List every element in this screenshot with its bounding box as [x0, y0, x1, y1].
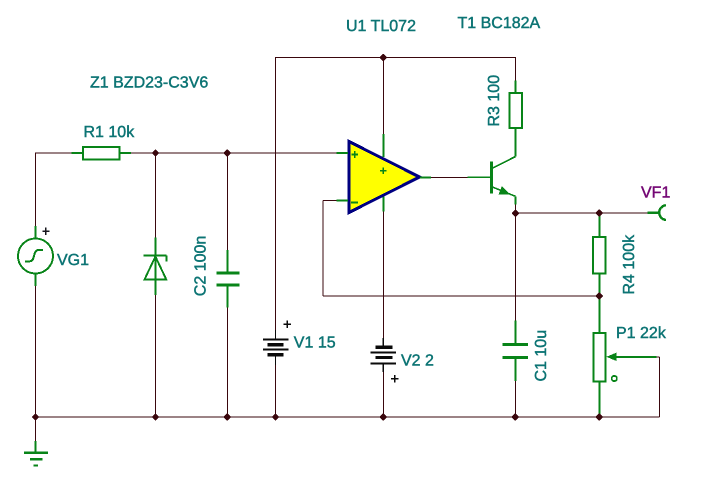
svg-text:U1 TL072: U1 TL072 — [346, 18, 416, 35]
op-amp plus input mark — [351, 154, 358, 156]
wire P1 wiper drop to bus — [659, 357, 661, 417]
transistor T1 — [468, 157, 516, 205]
generator VG1 — [18, 226, 53, 286]
svg-text:VG1: VG1 — [57, 252, 89, 269]
wire feedback riser — [322, 201, 324, 297]
svg-text:V1 15: V1 15 — [294, 335, 336, 352]
wire VG1 top riser — [35, 153, 37, 227]
V1 polarity plus — [284, 323, 292, 325]
svg-text:T1 BC182A: T1 BC182A — [458, 15, 541, 32]
wire emitter to node — [515, 204, 517, 213]
wire emitter node down to C1 — [515, 213, 517, 320]
wire op-amp output to T1 base — [431, 176, 468, 178]
op-amp V+ mark — [380, 170, 387, 172]
ground — [24, 441, 48, 466]
wire bottom bus — [36, 416, 660, 418]
wire feedback minus stub — [323, 200, 337, 202]
node bus Z1 junction — [152, 414, 158, 420]
svg-text:R3 100: R3 100 — [486, 75, 503, 127]
svg-text:R1 10k: R1 10k — [84, 124, 136, 141]
node bus C1 junction — [512, 414, 518, 420]
wire ground drop — [35, 417, 37, 442]
op-amp U1 input/output leads — [337, 153, 432, 201]
wire op-amp V- riser to V2 — [382, 212, 384, 346]
node V+ rail junction — [380, 54, 386, 60]
potentiometer P1 — [594, 296, 657, 417]
wire C1 to bottom bus — [515, 381, 517, 417]
wire top rail from V1 riser to R3 — [276, 57, 517, 59]
capacitor C2 — [216, 250, 239, 308]
svg-text:V2 2: V2 2 — [401, 353, 434, 370]
svg-text:P1 22k: P1 22k — [616, 325, 667, 342]
wire R1 to op-amp plus input — [131, 152, 337, 154]
zener diode Z1 — [143, 238, 166, 296]
VG1 polarity plus — [42, 230, 49, 232]
node bus V2 junction — [380, 414, 386, 420]
node R1/Z1 junction — [152, 150, 158, 156]
wire V1 negative to bottom bus — [275, 357, 277, 418]
op-amp minus input mark — [351, 201, 358, 203]
wire V2 to bottom bus — [382, 364, 384, 417]
svg-text:C2 100n: C2 100n — [193, 236, 210, 297]
battery V1 — [263, 330, 289, 365]
wire op-amp V+ riser — [382, 57, 384, 134]
resistor R3 — [510, 80, 523, 156]
wire feedback horizontal to R4 bottom node — [323, 295, 599, 297]
wire top rail drop to R3 — [515, 57, 517, 81]
node R4 top junction — [596, 210, 602, 216]
node bus V1 junction — [272, 414, 278, 420]
capacitor C1 — [502, 321, 528, 382]
battery V2 — [371, 338, 397, 372]
svg-text:Z1 BZD23-C3V6: Z1 BZD23-C3V6 — [90, 75, 208, 92]
wire input node left segment — [36, 152, 72, 154]
node bus C2 junction — [224, 414, 230, 420]
svg-text:C1 10u: C1 10u — [533, 330, 550, 382]
resistor R1 — [72, 147, 132, 160]
terminal VF1 — [648, 205, 666, 219]
V2 polarity plus — [391, 378, 399, 380]
resistor R4 — [593, 214, 606, 296]
node emitter junction — [512, 210, 518, 216]
wire P1 wiper corner — [657, 356, 660, 358]
wire emitter node to VF1 — [516, 212, 648, 214]
wire zener bottom riser — [155, 295, 157, 417]
wire zener top riser — [155, 153, 157, 238]
wire VG1 bottom riser — [35, 286, 37, 417]
wire C2 top riser — [226, 153, 228, 250]
node bus VG1 junction — [32, 414, 38, 420]
svg-text:R4 100k: R4 100k — [621, 234, 638, 295]
node R4/P1 junction — [596, 293, 602, 299]
op-amp U1 — [349, 142, 420, 213]
node R1/C2 junction — [224, 150, 230, 156]
op-amp U1 power pins — [382, 134, 384, 212]
node bus P1 junction — [596, 414, 602, 420]
wire C2 bottom riser — [226, 308, 228, 418]
svg-text:VF1: VF1 — [641, 184, 670, 201]
wire V1 positive riser — [275, 57, 277, 339]
